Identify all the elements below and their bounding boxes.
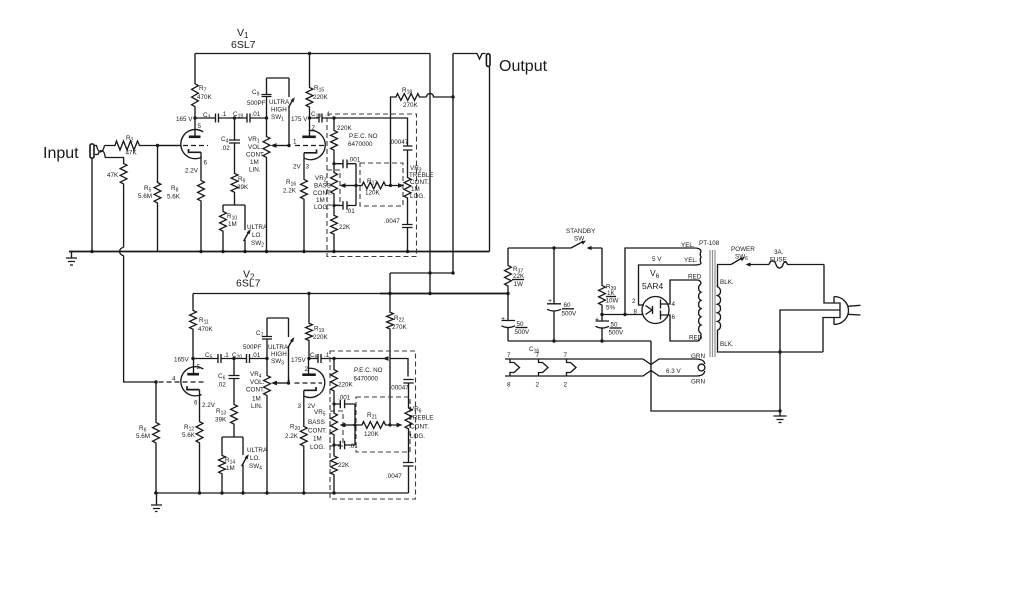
triode V1b plate (pin 2) xyxy=(309,118,311,137)
capacitor 50/500V (second) xyxy=(596,315,610,342)
wire standby rail xyxy=(508,247,602,249)
capacitor .00047 (stack2) xyxy=(403,380,413,384)
input jack J1 xyxy=(90,144,94,158)
svg-text:470K: 470K xyxy=(197,94,213,101)
wire B+ link y273 xyxy=(390,272,453,274)
svg-text:270K: 270K xyxy=(403,102,419,109)
svg-text:5: 5 xyxy=(197,364,201,371)
svg-text:LO.: LO. xyxy=(252,232,262,239)
svg-text:500V: 500V xyxy=(515,329,531,336)
triode V1a cathode (pin 6) xyxy=(189,149,202,152)
wire filter bus to chassis ground xyxy=(651,341,780,411)
wire output tip vertical xyxy=(452,54,454,274)
potentiometer VR1 VOL CONT 1M LIN xyxy=(266,118,268,135)
wire jack sleeve to ground xyxy=(91,158,93,252)
wire V1 B+ top rail xyxy=(195,53,430,55)
svg-text:1M: 1M xyxy=(316,197,325,204)
svg-text:6470000: 6470000 xyxy=(354,376,379,383)
heater tap V3 (pins 7/2) xyxy=(567,359,577,376)
triode V2a plate (pin 5) xyxy=(193,359,195,375)
svg-text:165 V: 165 V xyxy=(176,116,193,123)
wire 5V winding bottom to pin 2 xyxy=(639,265,695,305)
wire input to 47K divider xyxy=(95,150,124,162)
svg-text:.0047: .0047 xyxy=(384,218,400,225)
resistor R15 xyxy=(309,54,311,87)
svg-text:.02: .02 xyxy=(221,145,230,152)
svg-text:6: 6 xyxy=(194,400,198,407)
wire stack2 top xyxy=(334,359,408,377)
svg-text:7: 7 xyxy=(507,352,511,359)
resistor R16 xyxy=(301,178,308,201)
switch STANDBY SW xyxy=(571,242,583,249)
svg-text:ULTRA: ULTRA xyxy=(268,344,289,351)
triode V1a plate (pin 5) xyxy=(194,118,196,137)
switch POWER SW6 xyxy=(731,258,742,265)
svg-text:1: 1 xyxy=(287,376,291,383)
node C20/C7/VR4 junction xyxy=(265,357,268,360)
VR1 wiper arrow xyxy=(274,145,289,147)
svg-text:2.2V: 2.2V xyxy=(185,168,199,175)
svg-text:SW: SW xyxy=(574,236,584,243)
svg-text:.1: .1 xyxy=(221,111,227,118)
resistor R19 xyxy=(308,294,310,323)
svg-text:LOG.: LOG. xyxy=(410,193,425,200)
resistor 220K (stack1) xyxy=(333,118,335,129)
wire primary bottom xyxy=(718,330,824,352)
svg-text:120K: 120K xyxy=(365,190,381,197)
svg-text:8: 8 xyxy=(507,382,511,389)
resistor R6 xyxy=(155,382,157,421)
wire fuse to plug xyxy=(824,265,834,304)
capacitor .01 (stack2) xyxy=(334,441,355,450)
V6 plate pin 6 xyxy=(661,311,698,342)
svg-text:CONT.: CONT. xyxy=(410,424,429,431)
svg-text:2: 2 xyxy=(564,382,568,389)
inner dashed box around R21 xyxy=(356,397,410,452)
svg-text:500PF: 500PF xyxy=(243,344,262,351)
triode V2b grid (pin 1, dashed) xyxy=(295,382,323,384)
svg-text:ULTRA: ULTRA xyxy=(247,447,268,454)
wire V1 rail feed vertical x430 xyxy=(429,54,431,294)
potentiometer VR6 TREBLE CONT LOG xyxy=(408,383,410,407)
inner dashed box around VR2 xyxy=(327,170,340,205)
svg-text:.01: .01 xyxy=(346,208,355,215)
svg-text:.0047: .0047 xyxy=(386,473,402,480)
capacitor C3 xyxy=(195,117,235,119)
VR6 wiper arrow xyxy=(397,423,403,428)
resistor R8 xyxy=(198,179,205,203)
resistor R7 xyxy=(194,54,196,83)
svg-text:PT-108: PT-108 xyxy=(699,240,720,247)
svg-text:STANDBY: STANDBY xyxy=(566,228,596,235)
ground symbol (V1 bus) xyxy=(66,252,77,266)
svg-text:39K: 39K xyxy=(215,417,227,424)
svg-text:7: 7 xyxy=(536,352,540,359)
capacitor .001 (stack1) xyxy=(334,160,356,169)
triode V2b envelope xyxy=(304,368,325,397)
capacitor 60/500V xyxy=(547,248,561,341)
svg-text:.001: .001 xyxy=(348,157,361,164)
svg-text:4: 4 xyxy=(172,376,176,383)
resistor R39 1K 10W 5% xyxy=(601,248,603,284)
svg-text:2V: 2V xyxy=(293,164,302,171)
svg-text:Output: Output xyxy=(499,58,548,75)
resistor R13 xyxy=(231,403,238,426)
triode V1a envelope xyxy=(181,129,203,158)
AC plug xyxy=(834,297,849,325)
svg-text:1: 1 xyxy=(293,139,297,146)
svg-text:LOG.: LOG. xyxy=(310,444,325,451)
svg-text:.01: .01 xyxy=(349,443,358,450)
resistor 47K (to V2 grid) xyxy=(120,162,127,186)
svg-text:2: 2 xyxy=(312,125,316,132)
resistor R22 xyxy=(389,294,391,312)
svg-text:500V: 500V xyxy=(609,330,625,337)
triode V2a grid (pin 4, dashed) xyxy=(159,381,207,383)
svg-text:1M: 1M xyxy=(226,465,235,472)
resistor 22K (stack1) xyxy=(333,196,335,214)
svg-text:BLK.: BLK. xyxy=(720,279,734,286)
resistor R9 xyxy=(231,172,238,194)
svg-text:3: 3 xyxy=(306,164,310,171)
svg-text:5 V: 5 V xyxy=(652,256,662,263)
resistor R18 270K xyxy=(391,94,427,186)
resistor R11 xyxy=(192,294,194,310)
wire V1 ground bus xyxy=(69,251,490,253)
svg-text:175V: 175V xyxy=(291,357,307,364)
node R2/R5/grid junction xyxy=(156,144,159,147)
wire R13 bottom junction xyxy=(222,437,243,454)
svg-text:+: + xyxy=(595,317,599,324)
svg-text:3: 3 xyxy=(298,403,302,410)
svg-text:.02: .02 xyxy=(217,382,226,389)
svg-text:HIGH: HIGH xyxy=(271,107,287,114)
svg-text:2.2K: 2.2K xyxy=(283,188,297,195)
svg-text:P.E.C. NO: P.E.C. NO xyxy=(349,133,378,140)
wire plug middle to ground xyxy=(780,310,840,411)
svg-text:1M: 1M xyxy=(411,186,420,193)
P.E.C. tone unit 1 dashed outline xyxy=(327,114,417,257)
svg-text:6470000: 6470000 xyxy=(348,141,373,148)
svg-text:175 V: 175 V xyxy=(291,116,308,123)
resistor R20 xyxy=(300,425,307,448)
node C3/C19/C4 junction xyxy=(233,116,236,119)
svg-text:2: 2 xyxy=(536,382,540,389)
potentiometer VR5 BASS CONT 1M LOG xyxy=(331,412,338,437)
V6 filament xyxy=(646,306,653,315)
resistor R5 xyxy=(157,146,159,183)
resistor R14 xyxy=(219,454,226,476)
svg-text:5: 5 xyxy=(198,123,202,130)
potentiometer VR2 BASS CONT 1M LOG xyxy=(331,171,338,196)
svg-text:6.3 V: 6.3 V xyxy=(666,368,682,375)
svg-text:GRN: GRN xyxy=(691,379,705,386)
svg-text:5%: 5% xyxy=(606,305,616,312)
VR4 wiper arrow xyxy=(275,382,289,384)
resistor R37 22K 1W xyxy=(507,248,509,264)
svg-text:5.6K: 5.6K xyxy=(167,194,181,201)
wire 47K down, hop over ground bus, to V2 grid xyxy=(120,186,156,382)
svg-text:3A.: 3A. xyxy=(774,249,784,256)
capacitor .01 (stack1) xyxy=(334,201,356,210)
svg-text:.1: .1 xyxy=(224,352,230,359)
svg-text:POWER: POWER xyxy=(731,246,755,253)
capacitor .0047 (stack1) xyxy=(402,225,413,252)
svg-text:5.6K: 5.6K xyxy=(182,432,196,439)
ground symbol (V2 bus) xyxy=(151,493,162,512)
wire R9 bottom junction xyxy=(223,205,245,210)
svg-text:47K: 47K xyxy=(107,172,119,179)
inner dashed box around VR5 xyxy=(330,411,343,446)
svg-text:7: 7 xyxy=(564,352,568,359)
svg-text:10W: 10W xyxy=(606,298,619,305)
svg-text:CONT.: CONT. xyxy=(308,428,327,435)
svg-text:LOG.: LOG. xyxy=(314,204,329,211)
svg-text:220K: 220K xyxy=(313,94,329,101)
svg-text:1M: 1M xyxy=(250,159,259,166)
triode V1a grid (dashed) xyxy=(158,145,182,147)
triode V2a cathode (pin 6) xyxy=(187,386,200,389)
svg-text:+: + xyxy=(548,298,552,305)
wire 5V winding top to pin 8 xyxy=(625,248,694,315)
svg-text:.01: .01 xyxy=(252,352,261,359)
svg-text:BASS: BASS xyxy=(308,419,325,426)
svg-text:LIN.: LIN. xyxy=(249,167,261,174)
resistor R21 120K xyxy=(355,422,398,429)
capacitor .0047 (stack2) xyxy=(403,463,414,494)
switch SW2 ULTRA LO xyxy=(244,205,246,230)
svg-text:47K: 47K xyxy=(126,150,138,157)
capacitor .00047 xyxy=(403,146,413,150)
wire B+ link x390 xyxy=(389,273,391,294)
heater tap V2 (pins 7/2) xyxy=(539,359,549,376)
transformer core xyxy=(710,250,715,357)
svg-text:ULTRA: ULTRA xyxy=(247,224,268,231)
capacitor C20 xyxy=(234,358,267,360)
svg-text:2.2V: 2.2V xyxy=(202,402,216,409)
svg-text:YEL.: YEL. xyxy=(681,242,695,249)
svg-text:220K: 220K xyxy=(338,382,354,389)
svg-text:CONT.: CONT. xyxy=(410,179,429,186)
resistor 22K (stack2) xyxy=(333,437,335,455)
svg-text:.00047: .00047 xyxy=(389,139,409,146)
capacitor C4 xyxy=(234,118,236,172)
svg-text:1W: 1W xyxy=(514,281,524,288)
resistor R10 xyxy=(220,210,227,233)
wire input tip to R2 xyxy=(94,146,105,153)
triode V1b grid (dashed) xyxy=(295,145,324,147)
svg-text:5AR4: 5AR4 xyxy=(642,281,664,291)
ground symbol (chassis) xyxy=(774,411,787,423)
switch SW3 blade xyxy=(288,318,293,383)
svg-text:.001: .001 xyxy=(338,395,351,402)
svg-text:4: 4 xyxy=(672,301,676,308)
svg-text:60: 60 xyxy=(564,302,572,309)
svg-text:500PF: 500PF xyxy=(247,100,266,107)
resistor R17 120K xyxy=(356,182,400,189)
capacitor C19 xyxy=(235,117,267,119)
wire B+ bus into supply xyxy=(380,293,508,295)
wire .001/.01 right-side vertical (stack2) xyxy=(354,404,356,445)
svg-text:BLK.: BLK. xyxy=(720,341,734,348)
potentiometer VR3 TREBLE CONT 1M LOG xyxy=(407,150,409,176)
svg-text:BASS: BASS xyxy=(314,183,331,190)
svg-text:VOL.: VOL. xyxy=(250,379,265,386)
svg-text:1M: 1M xyxy=(313,436,322,443)
svg-text:CONT.: CONT. xyxy=(246,387,265,394)
svg-text:8: 8 xyxy=(634,309,638,316)
svg-text:+: + xyxy=(501,316,505,323)
svg-text:5.6M: 5.6M xyxy=(136,433,150,440)
svg-text:P.E.C. NO: P.E.C. NO xyxy=(354,367,383,374)
svg-text:22K: 22K xyxy=(339,224,351,231)
svg-text:.00047: .00047 xyxy=(390,385,410,392)
wire V2 B+ rail xyxy=(193,293,508,295)
svg-text:CONT.: CONT. xyxy=(313,190,332,197)
svg-text:RED: RED xyxy=(688,274,702,281)
triode V2b cathode (pin 3) xyxy=(304,387,316,390)
svg-text:Input: Input xyxy=(43,145,79,162)
node C5/C20/C6 junction xyxy=(232,357,235,360)
plug prongs xyxy=(848,305,861,315)
wire output sleeve vertical xyxy=(489,67,491,252)
capacitor C10 xyxy=(310,117,335,119)
wire .001/.01 right-side vertical xyxy=(355,164,357,206)
svg-text:LO.: LO. xyxy=(250,455,260,462)
svg-text:220K: 220K xyxy=(337,125,353,132)
svg-text:HIGH: HIGH xyxy=(271,351,287,358)
wire PS cap bus xyxy=(508,340,651,342)
potentiometer VR4 VOL CONT 1M LIN xyxy=(266,359,268,375)
svg-text:2: 2 xyxy=(305,366,309,373)
svg-text:5.6M: 5.6M xyxy=(138,193,152,200)
wire plug lower stub xyxy=(823,318,834,353)
svg-text:.01: .01 xyxy=(252,111,261,118)
svg-text:6: 6 xyxy=(204,160,208,167)
wire stack1 top xyxy=(334,118,408,146)
triode V1b cathode (pin 3) xyxy=(304,150,317,153)
capacitor C7 + switch SW3 ULTRA HIGH loop xyxy=(262,318,289,359)
node C19/VR1/C9 junction xyxy=(265,116,268,119)
svg-text:2: 2 xyxy=(632,298,636,305)
svg-text:LOG.: LOG. xyxy=(410,433,425,440)
svg-text:500V: 500V xyxy=(562,311,578,318)
svg-text:.1: .1 xyxy=(324,352,330,359)
resistor R2 xyxy=(105,141,182,150)
V6 plate pin 4 xyxy=(661,280,698,309)
svg-text:39K: 39K xyxy=(237,184,249,191)
svg-text:6SL7: 6SL7 xyxy=(231,39,256,51)
wire V2 ground bus xyxy=(154,492,409,494)
VR3 wiper arrow xyxy=(398,183,404,188)
heater tap V1 (pins 7/8) xyxy=(510,359,520,376)
svg-text:6SL7: 6SL7 xyxy=(236,278,261,290)
svg-text:120K: 120K xyxy=(364,431,380,438)
switch SW4 ULTRA LO xyxy=(242,437,244,455)
svg-text:270K: 270K xyxy=(392,324,408,331)
svg-text:6: 6 xyxy=(672,314,676,321)
triode V1b envelope xyxy=(305,130,326,159)
svg-text:2.2K: 2.2K xyxy=(285,433,299,440)
svg-text:ULTRA: ULTRA xyxy=(269,99,290,106)
wire rectifier pin 8 xyxy=(602,314,643,316)
capacitor C9 + switch SW1 ULTRA HIGH loop xyxy=(262,78,290,118)
switch SW1 blade xyxy=(289,78,294,146)
output jack J2 xyxy=(453,54,486,60)
svg-text:1M: 1M xyxy=(228,221,237,228)
svg-text:165V: 165V xyxy=(174,357,190,364)
resistor 220K (stack2) xyxy=(333,359,335,369)
triode V2a envelope xyxy=(181,367,203,396)
svg-text:TREBLE: TREBLE xyxy=(409,415,434,422)
capacitor C8 xyxy=(309,358,334,360)
svg-text:YEL.: YEL. xyxy=(684,257,698,264)
svg-text:1M: 1M xyxy=(252,396,261,403)
triode V2b plate (pin 2) xyxy=(308,359,310,375)
capacitor .001 (stack2) xyxy=(334,400,355,409)
inner dashed box around R17 xyxy=(360,163,403,206)
capacitor C6 xyxy=(229,359,240,404)
svg-text:LIN.: LIN. xyxy=(251,403,263,410)
capacitor C5 xyxy=(193,358,234,360)
svg-text:22K: 22K xyxy=(338,462,350,469)
svg-text:220K: 220K xyxy=(313,334,329,341)
svg-text:CONT.: CONT. xyxy=(246,152,265,159)
svg-text:470K: 470K xyxy=(198,326,214,333)
svg-text:VOL.: VOL. xyxy=(248,144,263,151)
P.E.C. tone unit 2 dashed outline xyxy=(330,351,416,499)
capacitor 50/500V (input filter) xyxy=(502,321,516,342)
heater twisted pair xyxy=(505,359,688,365)
wire primary top to power switch xyxy=(718,265,732,288)
resistor R12 xyxy=(196,420,203,445)
